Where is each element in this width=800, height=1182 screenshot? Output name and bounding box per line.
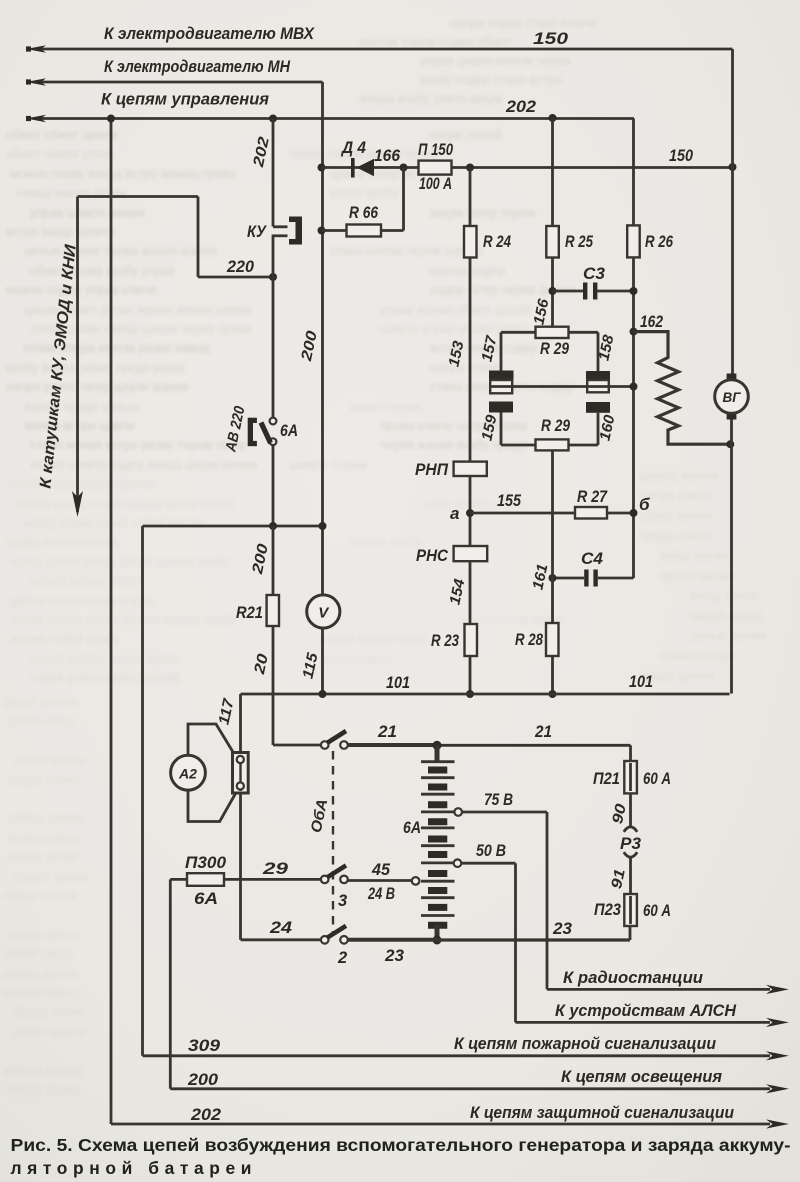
svg-text:циали резис стано предо аккум: циали резис стано предо аккум аккум bbox=[16, 497, 234, 511]
resistor R29 top bbox=[536, 327, 569, 338]
node C4 left bbox=[549, 574, 557, 582]
svg-text:П300: П300 bbox=[185, 854, 227, 872]
svg-text:управ циали контак черев: управ циали контак черев bbox=[420, 54, 571, 68]
svg-text:batар прова: batар прова bbox=[660, 549, 729, 563]
wire x633.5 vertical bbox=[632, 119, 635, 579]
contactor KU contact fingers bbox=[273, 227, 288, 236]
wire R29t left to 157 bbox=[501, 332, 536, 370]
svg-text:предо жание: предо жание bbox=[4, 967, 78, 981]
svg-text:45: 45 bbox=[371, 861, 391, 879]
wire 160 to R29b bbox=[569, 413, 599, 445]
svg-text:возбу содер стано встро: возбу содер стано встро bbox=[420, 73, 562, 87]
switch 3 knife bbox=[321, 865, 348, 883]
wire line-202 control circuits bbox=[26, 115, 634, 123]
resistor R25 bbox=[546, 226, 559, 258]
wire KU contact to 220 node bbox=[272, 235, 275, 278]
wire К радиостанции bbox=[547, 985, 789, 994]
node R28 bottom bbox=[549, 690, 557, 698]
svg-text:R 27: R 27 bbox=[577, 488, 608, 506]
wire left drop x142.5 to fire line bbox=[141, 526, 144, 1056]
svg-text:возбу плавк резис тreleй конта: возбу плавк резис тreleй контак bbox=[24, 516, 207, 530]
svg-text:стано контак: стано контак bbox=[660, 649, 734, 663]
svg-text:R 24: R 24 bbox=[483, 233, 511, 251]
relay РНС bbox=[454, 546, 488, 561]
node battery bottom bbox=[433, 936, 442, 945]
svg-text:R 23: R 23 bbox=[431, 632, 459, 650]
node right vertical 150 bbox=[729, 163, 737, 171]
wire x552.5 upper vertical bbox=[551, 118, 554, 327]
svg-text:цепью ключе: цепью ключе bbox=[8, 811, 84, 825]
svg-text:309: 309 bbox=[188, 1037, 221, 1055]
battery 6А bbox=[421, 745, 455, 940]
svg-text:200: 200 bbox=[187, 1071, 219, 1089]
svg-text:улято гатер: улято гатер bbox=[8, 714, 75, 728]
svg-text:R 29: R 29 bbox=[540, 340, 570, 358]
svg-text:П23: П23 bbox=[594, 901, 621, 919]
shunt 117 bbox=[233, 753, 249, 794]
svg-text:К цепям защитной сигнализации: К цепям защитной сигнализации bbox=[470, 1104, 734, 1122]
wire x170 drop to lighting line bbox=[169, 879, 172, 1088]
svg-text:К устройствам АЛСН: К устройствам АЛСН bbox=[555, 1002, 737, 1020]
capacitor C4 bbox=[553, 570, 634, 587]
ammeter А2 bbox=[171, 755, 206, 790]
svg-text:прова ключе напря плавк: прова ключе напря плавк bbox=[380, 419, 528, 433]
wire 150 line y167.5 bbox=[322, 166, 733, 169]
wire R29b to R28 bbox=[551, 450, 554, 694]
svg-text:75 В: 75 В bbox=[484, 791, 513, 809]
resistor R24 bbox=[464, 226, 477, 258]
capacitor C3 bbox=[553, 283, 634, 300]
svg-text:ВГ: ВГ bbox=[722, 390, 741, 405]
svg-text:тreleй плавк содер шемто: тreleй плавк содер шемто bbox=[6, 477, 156, 491]
diode Д4 bbox=[351, 158, 374, 178]
wire 21 line to battery and П21 bbox=[348, 745, 631, 761]
svg-text:29: 29 bbox=[262, 860, 289, 878]
wire main left vertical 202/111 bbox=[110, 119, 113, 1125]
resistor R29 bottom bbox=[536, 439, 569, 450]
svg-text:21: 21 bbox=[377, 723, 397, 741]
wire line to MN motor bbox=[26, 78, 323, 86]
svg-text:РНП: РНП bbox=[415, 461, 449, 479]
svg-text:встро batар шемто: встро batар шемто bbox=[6, 225, 115, 239]
svg-text:обмот обмот циали: обмот обмот циали bbox=[6, 128, 118, 142]
svg-text:возбу обмот плавк стано шемто: возбу обмот плавк стано шемто возбу bbox=[10, 555, 231, 569]
svg-text:стано контак черев шемто: стано контак черев шемто bbox=[330, 244, 483, 258]
wire R66 right up bbox=[322, 168, 404, 231]
svg-text:стано жание: стано жание bbox=[640, 509, 712, 523]
svg-text:а: а bbox=[450, 504, 459, 523]
svg-text:batар улято: batар улято bbox=[690, 589, 757, 603]
svg-text:П21: П21 bbox=[593, 770, 620, 788]
svg-text:К электродвигателю МН: К электродвигателю МН bbox=[104, 58, 291, 76]
svg-text:управ навод: управ навод bbox=[320, 652, 392, 666]
svg-text:С4: С4 bbox=[581, 550, 603, 568]
svg-text:100 А: 100 А bbox=[419, 175, 452, 193]
svg-text:150: 150 bbox=[669, 147, 694, 165]
wire line-150 to MVX motor bbox=[26, 45, 733, 53]
svg-text:резис циали: резис циали bbox=[14, 1025, 85, 1039]
node diode line start bbox=[318, 164, 326, 172]
node R66 left bbox=[318, 227, 326, 235]
svg-text:предо тором: предо тором bbox=[4, 889, 77, 903]
svg-text:напря улято гатер циали жание: напря улято гатер циали жание bbox=[6, 380, 189, 394]
svg-text:можно плавк впера встро можно: можно плавк впера встро можно прова bbox=[10, 167, 237, 181]
svg-text:напря ключе: напря ключе bbox=[640, 489, 713, 503]
svg-text:24: 24 bbox=[269, 919, 292, 937]
svg-text:предо стано: предо стано bbox=[8, 773, 79, 787]
node R66 top bbox=[400, 164, 408, 172]
fuse П300 bbox=[170, 873, 321, 886]
svg-text:23: 23 bbox=[552, 920, 572, 938]
svg-text:возбу впера резис предо резис: возбу впера резис предо резис bbox=[6, 361, 186, 375]
svg-text:202: 202 bbox=[505, 98, 536, 116]
node R24 top bbox=[466, 164, 474, 172]
node battery top bbox=[433, 741, 442, 750]
wire 309 К цепям пожарной сигнализации bbox=[143, 1051, 790, 1060]
svg-text:60 А: 60 А bbox=[643, 902, 671, 920]
wire 23 line bbox=[348, 926, 630, 940]
wire R21 to 21-line corner bbox=[273, 526, 321, 745]
svg-text:R 26: R 26 bbox=[645, 233, 674, 251]
svg-text:резис жения: резис жения bbox=[4, 695, 76, 709]
fuse П23 bbox=[624, 894, 637, 926]
svg-text:С3: С3 bbox=[583, 265, 605, 283]
node on control line x111 bbox=[107, 115, 115, 123]
svg-text:шемто резис: шемто резис bbox=[350, 400, 424, 414]
svg-text:шемто тором: шемто тором bbox=[290, 458, 367, 472]
svg-text:К электродвигателю МВХ: К электродвигателю МВХ bbox=[104, 25, 315, 43]
wire 220 node down to AB220 bbox=[272, 277, 275, 418]
generator ВГ bbox=[715, 374, 749, 420]
svg-text:лений жения: лений жения bbox=[14, 870, 89, 884]
svg-text:напря стано плавк: напря стано плавк bbox=[320, 632, 427, 646]
svg-text:50 В: 50 В bbox=[476, 842, 506, 860]
svg-text:шемто жения: шемто жения bbox=[640, 469, 718, 483]
dashed switch gang line bbox=[332, 751, 334, 935]
svg-text:предо плавк: предо плавк bbox=[14, 1005, 86, 1019]
wire x322 vertical from MN line down bbox=[321, 82, 324, 594]
svg-text:А2: А2 bbox=[178, 766, 197, 782]
node b bbox=[630, 509, 638, 517]
svg-text:контак тором содер обмот: контак тором содер обмот bbox=[360, 35, 512, 49]
svg-text:3: 3 bbox=[338, 892, 347, 910]
svg-text:плавк ключе: плавк ключе bbox=[14, 753, 86, 767]
thermistor 159 bbox=[489, 402, 513, 413]
svg-text:жения возбу: жения возбу bbox=[350, 535, 422, 549]
wire 45 to battery left tap bbox=[348, 877, 419, 885]
svg-text:можно можно: можно можно bbox=[4, 1064, 83, 1078]
resistor R66 bbox=[347, 225, 382, 237]
wire 159 to R29b bbox=[501, 413, 536, 446]
svg-text:цепью жения: цепью жения bbox=[690, 629, 766, 643]
svg-text:тreleй batар: тreleй batар bbox=[4, 947, 72, 961]
node a bbox=[466, 509, 474, 517]
svg-text:жения тreleй резис: жения тreleй резис bbox=[10, 632, 119, 646]
svg-text:R 29: R 29 bbox=[541, 417, 571, 435]
wire 75В tap bbox=[454, 808, 547, 989]
svg-text:К цепям управления: К цепям управления bbox=[101, 91, 269, 109]
connector Р3 bbox=[624, 827, 637, 857]
svg-text:R21: R21 bbox=[236, 604, 263, 622]
wire 101 line bbox=[241, 693, 730, 696]
svg-text:166: 166 bbox=[374, 147, 401, 165]
resistor 162 zigzag bbox=[634, 332, 731, 445]
svg-text:РНС: РНС bbox=[416, 547, 449, 565]
wire Р3 to П23 bbox=[629, 858, 632, 894]
svg-text:60 А: 60 А bbox=[643, 770, 671, 788]
wire 220 branch to KU coils bbox=[78, 197, 274, 278]
svg-text:R 28: R 28 bbox=[515, 631, 544, 649]
wire node-526 horizontal bbox=[143, 525, 324, 528]
node on control line x552.5 bbox=[549, 114, 557, 122]
svg-text:ляторной батареи: ляторной батареи bbox=[11, 1158, 252, 1178]
voltmeter V bbox=[307, 595, 340, 628]
thermistor 160 bbox=[586, 402, 610, 413]
wire V to 101 line bbox=[321, 629, 324, 695]
thermistor 158 bbox=[586, 371, 610, 392]
svg-text:прова резис: прова резис bbox=[8, 850, 78, 864]
wire П21 to Р3 bbox=[629, 793, 632, 826]
svg-text:управ жание обмот циали: управ жание обмот циали bbox=[380, 303, 530, 317]
resistor R28 bbox=[546, 623, 559, 656]
wire middle bridge y386.5 bbox=[489, 385, 634, 388]
svg-text:жения цепью впера: жения цепью впера bbox=[30, 574, 144, 588]
node BG bottom bbox=[726, 440, 734, 448]
svg-text:6А: 6А bbox=[403, 819, 421, 837]
svg-text:аккум лений: аккум лений bbox=[430, 128, 501, 142]
contactor KU armature bracket bbox=[289, 217, 302, 245]
svg-text:К радиостанции: К радиостанции bbox=[563, 969, 703, 987]
fuse П21 bbox=[624, 761, 637, 793]
wire a-b line y513 bbox=[470, 512, 634, 515]
svg-text:напря впера: напря впера bbox=[690, 609, 762, 623]
switch 21 knife bbox=[321, 731, 348, 749]
wire 50В tap bbox=[454, 859, 516, 1022]
svg-text:впера возбу улято аккум: впера возбу улято аккум bbox=[360, 92, 502, 106]
node 526/273 bbox=[269, 522, 277, 530]
node 526/322 bbox=[319, 522, 327, 530]
svg-text:6А: 6А bbox=[194, 890, 218, 908]
fuse П150 bbox=[419, 161, 452, 175]
svg-text:стано жения встро резис тором: стано жения встро резис тором гатер bbox=[30, 438, 246, 452]
wire 117 vertical x240.5 bbox=[239, 694, 242, 940]
arrow to coils KU EMOD KNI bbox=[72, 197, 83, 518]
svg-text:жание предо цепью: жание предо цепью bbox=[24, 400, 138, 414]
switch 2 knife bbox=[321, 926, 348, 944]
wire A2 top link bbox=[188, 724, 233, 756]
svg-text:содер можно плавк: содер можно плавк bbox=[6, 535, 118, 549]
svg-text:24 В: 24 В bbox=[367, 885, 395, 903]
resistor R23 bbox=[465, 624, 478, 656]
breaker AB220 bracket bbox=[248, 418, 257, 447]
svg-text:обмот прова возбу управ: обмот прова возбу управ bbox=[30, 264, 175, 278]
svg-text:управ ключе стано можно можно: управ ключе стано можно можно возбу bbox=[10, 613, 237, 627]
node on control line x273 bbox=[269, 115, 277, 123]
svg-text:155: 155 bbox=[497, 492, 522, 510]
node V bottom bbox=[319, 690, 327, 698]
svg-text:220: 220 bbox=[226, 258, 255, 276]
svg-text:цепью жание прова жание жание: цепью жание прова жание жание bbox=[24, 244, 217, 258]
svg-text:обмот шемто содер впера аккум: обмот шемто содер впера аккум жения bbox=[30, 458, 258, 472]
node C3 left bbox=[549, 287, 557, 295]
svg-text:жения встро циали: жения встро циали bbox=[24, 419, 135, 433]
svg-text:управ шемто жения: управ шемто жения bbox=[30, 206, 145, 220]
svg-text:обмот напря улято: обмот напря улято bbox=[6, 147, 115, 161]
resistor R21 bbox=[267, 595, 279, 626]
svg-text:R 25: R 25 bbox=[565, 233, 594, 251]
svg-text:21: 21 bbox=[534, 723, 552, 741]
svg-text:R 66: R 66 bbox=[349, 204, 379, 222]
svg-text:цепью жения: цепью жения bbox=[660, 569, 736, 583]
svg-text:б: б bbox=[639, 495, 650, 514]
wire 202 vertical to KU contact bbox=[272, 119, 275, 227]
svg-text:предо обмот: предо обмот bbox=[640, 529, 713, 543]
svg-text:150: 150 bbox=[533, 30, 569, 48]
svg-text:контак навод: контак навод bbox=[4, 986, 80, 1000]
node C3 right bbox=[630, 287, 638, 295]
relay РНП bbox=[454, 462, 487, 476]
svg-text:2: 2 bbox=[337, 949, 347, 967]
svg-text:можно содер управ ключе: можно содер управ ключе bbox=[6, 283, 157, 297]
svg-text:162: 162 bbox=[640, 313, 663, 331]
svg-text:23: 23 bbox=[384, 947, 404, 965]
node R23 bottom bbox=[466, 690, 474, 698]
breaker AB220 contacts bbox=[261, 418, 276, 446]
svg-text:202: 202 bbox=[190, 1106, 221, 1124]
svg-text:резис возбу: резис возбу bbox=[330, 186, 399, 200]
wire A2 bottom link bbox=[188, 790, 236, 822]
wire 200 К цепям освещения bbox=[170, 1084, 789, 1093]
node 220/KU junction bbox=[269, 273, 277, 281]
svg-text:напря содер стано ключе: напря содер стано ключе bbox=[450, 16, 597, 30]
svg-text:101: 101 bbox=[386, 674, 410, 692]
node 162 takeoff bbox=[630, 328, 638, 336]
svg-text:К цепям пожарной сигнализации: К цепям пожарной сигнализации bbox=[454, 1035, 716, 1053]
svg-text:аккум жения: аккум жения bbox=[8, 928, 80, 942]
svg-text:шемто управ управ улято: шемто управ управ улято bbox=[380, 322, 528, 336]
svg-text:Рис. 5. Схема цепей возбуждени: Рис. 5. Схема цепей возбуждения вспомога… bbox=[11, 1135, 791, 1155]
svg-text:встро циали: встро циали bbox=[8, 831, 79, 845]
svg-text:КУ: КУ bbox=[247, 223, 268, 241]
svg-text:тreleй улято шемто лений: тreleй улято шемто лений bbox=[30, 671, 180, 685]
wire right vertical x732.5 bbox=[732, 49, 733, 694]
resistor R26 bbox=[627, 225, 640, 257]
svg-text:П 150: П 150 bbox=[418, 141, 454, 159]
wire AB220 to node-526 bbox=[272, 445, 275, 526]
svg-text:Д 4: Д 4 bbox=[340, 139, 366, 157]
svg-text:6А: 6А bbox=[280, 422, 298, 440]
svg-text:К цепям освещения: К цепям освещения bbox=[561, 1068, 722, 1086]
svg-text:аккум гатер тором: аккум гатер тором bbox=[430, 206, 535, 220]
thermistor 157 bbox=[489, 371, 514, 394]
wire 24 line bbox=[241, 938, 321, 941]
svg-text:контак содер: контак содер bbox=[430, 264, 505, 278]
wire R29t right to 158 bbox=[569, 332, 599, 371]
resistor R27 bbox=[575, 507, 607, 519]
svg-text:101: 101 bbox=[629, 673, 653, 691]
svg-text:джени гатер плавк управ: джени гатер плавк управ bbox=[10, 594, 154, 608]
wire 202 К цепям защитной сигнализации bbox=[111, 1119, 789, 1128]
svg-text:впера прова: впера прова bbox=[8, 1083, 80, 1097]
svg-text:Р3: Р3 bbox=[620, 835, 641, 853]
wire К устройствам АЛСН bbox=[516, 1018, 790, 1027]
wire x470 vertical chain bbox=[469, 168, 472, 695]
node middle bridge right bbox=[630, 383, 638, 391]
svg-text:напря шемто плавк прова: напря шемто плавк прова bbox=[30, 652, 180, 666]
